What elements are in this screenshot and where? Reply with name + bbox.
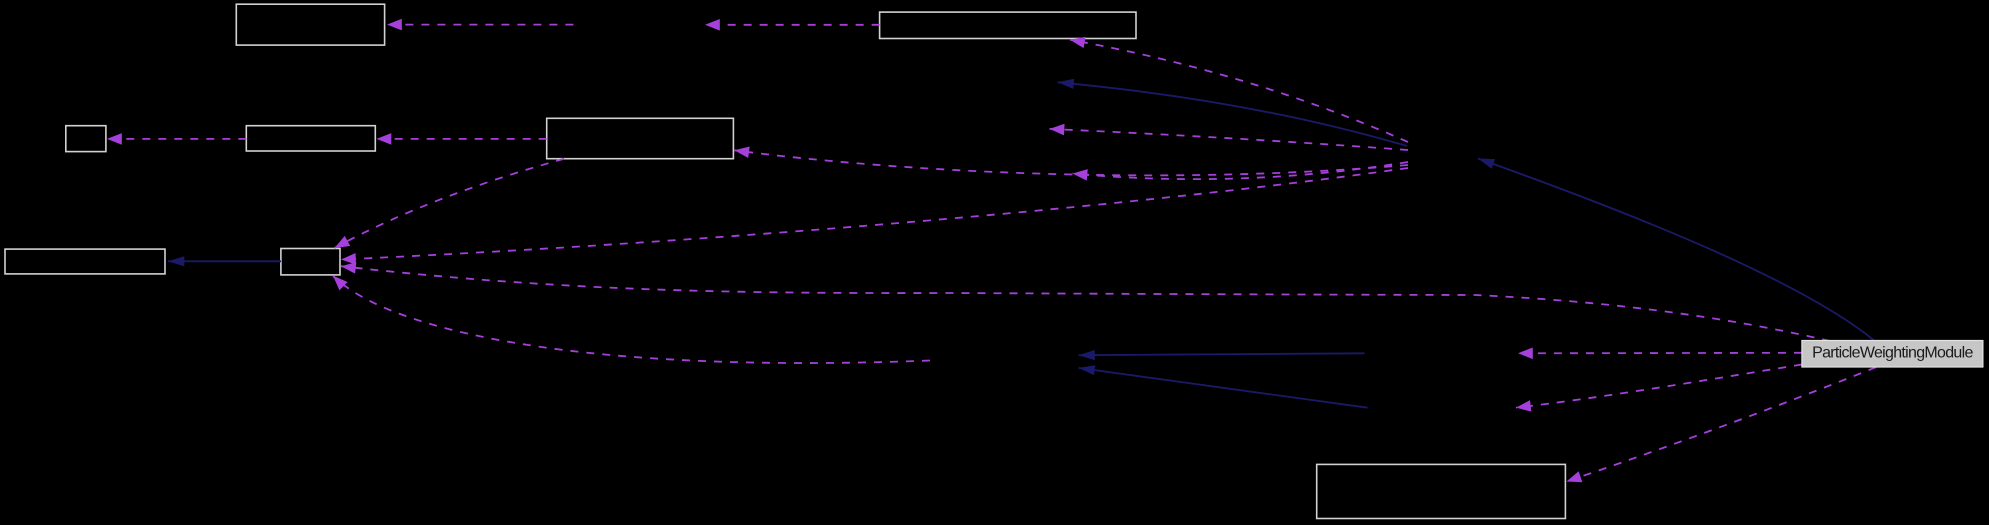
dashed arrow: box B2 to hidden node N1	[705, 24, 880, 26]
dashed arrow: hidden node N6 to box B7	[333, 276, 930, 363]
solid inheritance arrow: box B7 to box B6	[168, 260, 281, 262]
solid inheritance arrow: hidden node N9 to hidden node N6	[1079, 368, 1368, 408]
dashed arrow: ParticleWeightingModule to box B7 (long curve)	[341, 266, 1830, 341]
solid inheritance arrow: hidden node N8 to hidden node N6	[1079, 353, 1365, 355]
dashed arrow: ParticleWeightingModule to box B8	[1567, 367, 1877, 481]
class box B3 (small, mid-left, empty label)	[66, 126, 106, 152]
class box B1 (top left, empty label)	[236, 4, 384, 45]
class box B7 (small hub, empty label)	[281, 249, 340, 275]
dashed arrow: box B4 to box B3	[107, 138, 246, 140]
svg-text:ParticleWeightingModule: ParticleWeightingModule	[1812, 345, 1973, 362]
class box B5 (middle, empty label)	[547, 118, 734, 158]
dashed arrow: hub N5 to box B5	[734, 150, 1408, 175]
class box B6 (left, empty label)	[5, 249, 165, 274]
solid inheritance arrow: ParticleWeightingModule to hub N5	[1478, 159, 1874, 341]
dashed arrow: hub N5 to hidden node N4	[1073, 162, 1409, 179]
dashed arrow: box B5 to box B4	[377, 138, 547, 140]
dashed arrow: ParticleWeightingModule to hidden node N8	[1518, 352, 1802, 355]
class box B2 (top middle, empty label)	[880, 12, 1136, 38]
dashed arrow: hub N5 to box B7	[341, 168, 1408, 260]
solid inheritance arrow: hub N5 to hidden node N2	[1058, 82, 1408, 146]
class box B4 (mid-left, empty label)	[246, 126, 375, 151]
dashed arrow: box B5 to box B7	[335, 159, 565, 248]
dashed arrow: hidden hub N5 to box B2	[1070, 40, 1408, 142]
dashed arrow: ParticleWeightingModule to hidden node N9	[1516, 365, 1802, 408]
class box B8 (bottom right, empty label)	[1317, 464, 1566, 518]
dashed arrow: hub N5 to hidden node N3	[1050, 129, 1409, 150]
dashed arrow: hidden node N1 to box B1	[387, 24, 573, 26]
highlighted class box: ParticleWeightingModule	[1802, 341, 1983, 368]
